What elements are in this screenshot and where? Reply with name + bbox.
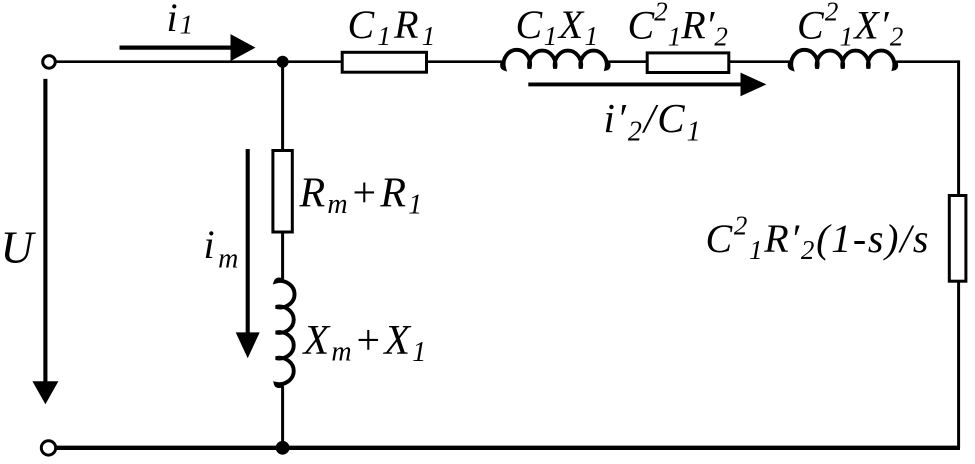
svg-text:Rm+R1: Rm+R1 [299, 171, 425, 221]
svg-text:U: U [1, 222, 37, 273]
svg-text:Xm+X1: Xm+X1 [302, 318, 429, 368]
